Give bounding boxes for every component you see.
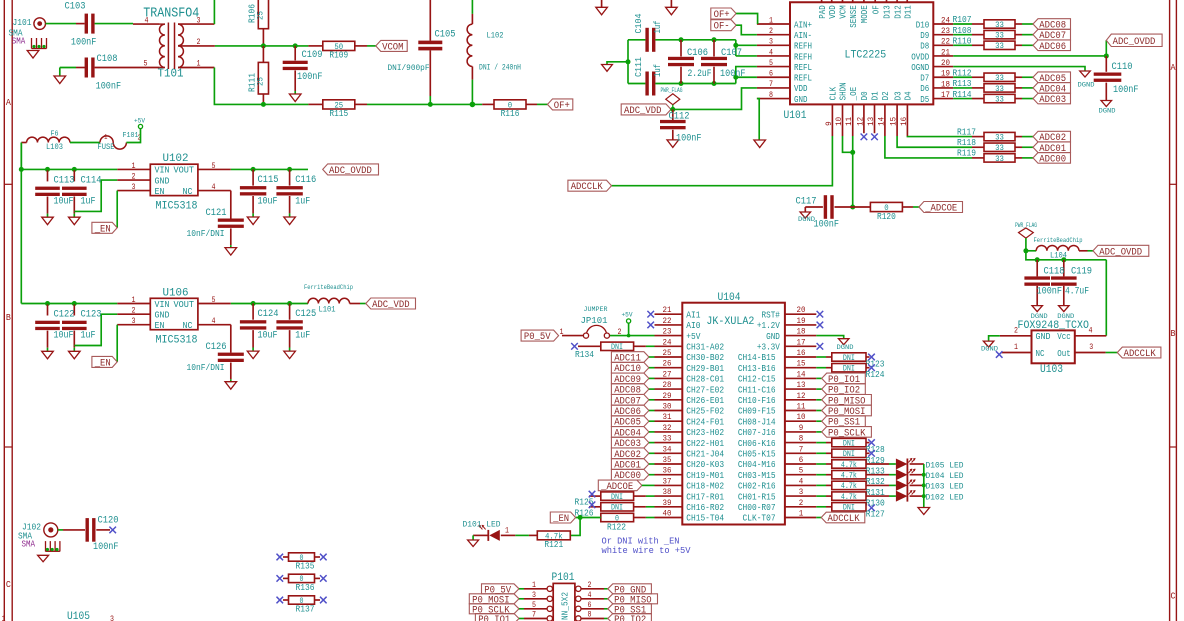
svg-text:33: 33 xyxy=(995,95,1004,104)
svg-text:JUMPER: JUMPER xyxy=(584,306,608,313)
svg-text:R134: R134 xyxy=(575,349,594,360)
svg-text:32: 32 xyxy=(663,423,672,433)
svg-text:CH09-F15: CH09-F15 xyxy=(738,407,776,417)
svg-text:C125: C125 xyxy=(295,309,316,320)
svg-text:11: 11 xyxy=(797,402,806,412)
svg-text:VCM: VCM xyxy=(839,5,849,19)
svg-text:U106: U106 xyxy=(163,287,189,299)
svg-text:L101: L101 xyxy=(319,306,336,315)
svg-text:DGND: DGND xyxy=(1031,313,1048,320)
svg-text:DNI: DNI xyxy=(611,504,623,513)
svg-text:B: B xyxy=(1171,329,1177,339)
svg-text:CH16-R02: CH16-R02 xyxy=(686,503,724,513)
svg-text:U104: U104 xyxy=(718,292,741,304)
svg-text:C110: C110 xyxy=(1112,62,1133,73)
svg-text:100nF: 100nF xyxy=(1037,287,1063,298)
svg-text:C119: C119 xyxy=(1071,266,1092,277)
svg-text:_ADCOE: _ADCOE xyxy=(924,204,957,215)
svg-text:MIC5318: MIC5318 xyxy=(156,200,198,212)
svg-text:DNI: DNI xyxy=(611,493,623,502)
svg-text:D104 LED: D104 LED xyxy=(926,471,964,481)
svg-text:CH02-R16: CH02-R16 xyxy=(738,482,776,492)
svg-text:DGND: DGND xyxy=(1099,108,1116,115)
svg-text:6: 6 xyxy=(799,455,804,465)
svg-text:NC: NC xyxy=(183,321,193,331)
svg-text:D102 LED: D102 LED xyxy=(926,492,964,502)
svg-text:CH01-R15: CH01-R15 xyxy=(738,492,776,502)
svg-text:A: A xyxy=(6,98,12,108)
svg-text:100nF: 100nF xyxy=(93,542,119,553)
svg-text:D105 LED: D105 LED xyxy=(926,460,964,470)
svg-text:R109: R109 xyxy=(329,50,348,61)
svg-text:C123: C123 xyxy=(81,309,102,320)
svg-text:C124: C124 xyxy=(258,309,279,320)
svg-text:R119: R119 xyxy=(957,148,976,159)
svg-text:CH17-R01: CH17-R01 xyxy=(686,492,724,502)
svg-text:_OE: _OE xyxy=(849,87,859,101)
svg-text:OF+: OF+ xyxy=(554,101,570,112)
svg-text:CH25-F02: CH25-F02 xyxy=(686,407,724,417)
svg-text:C104: C104 xyxy=(633,13,644,33)
svg-text:D13: D13 xyxy=(883,5,893,19)
svg-text:22: 22 xyxy=(663,316,672,326)
svg-text:R127: R127 xyxy=(866,508,885,519)
svg-text:D0: D0 xyxy=(860,91,870,100)
svg-text:CH21-J04: CH21-J04 xyxy=(686,450,724,460)
svg-text:+5V: +5V xyxy=(622,312,633,319)
svg-text:R117: R117 xyxy=(957,126,976,137)
svg-text:1: 1 xyxy=(1014,342,1018,352)
svg-text:33: 33 xyxy=(995,32,1004,41)
svg-text:+5V: +5V xyxy=(134,118,145,125)
svg-text:100nF: 100nF xyxy=(1113,85,1139,96)
svg-text:F101: F101 xyxy=(123,132,139,140)
svg-text:R126: R126 xyxy=(575,507,594,518)
svg-text:VIN: VIN xyxy=(155,166,170,176)
svg-text:R122: R122 xyxy=(607,521,626,532)
svg-text:CH29-B01: CH29-B01 xyxy=(686,364,724,374)
svg-text:C107: C107 xyxy=(721,48,742,59)
svg-text:VOUT: VOUT xyxy=(174,166,195,176)
svg-text:AI1: AI1 xyxy=(686,310,700,320)
svg-text:4: 4 xyxy=(212,316,216,326)
svg-text:28: 28 xyxy=(663,380,672,390)
svg-text:P0_IO1: P0_IO1 xyxy=(478,615,510,621)
svg-text:6: 6 xyxy=(588,600,592,610)
svg-text:1uF: 1uF xyxy=(295,331,310,342)
svg-text:REFL: REFL xyxy=(794,74,812,84)
svg-text:C117: C117 xyxy=(796,196,817,207)
svg-text:1: 1 xyxy=(132,295,136,305)
svg-text:R118: R118 xyxy=(957,137,976,148)
svg-text:GND: GND xyxy=(1036,332,1051,342)
svg-text:NC: NC xyxy=(1036,349,1045,359)
svg-text:29: 29 xyxy=(663,391,672,401)
svg-text:12: 12 xyxy=(797,391,806,401)
svg-text:U105: U105 xyxy=(67,611,90,621)
svg-text:B: B xyxy=(6,313,12,323)
svg-text:ADCCLK: ADCCLK xyxy=(1124,349,1156,360)
svg-text:CH04-M16: CH04-M16 xyxy=(738,460,776,470)
svg-text:6: 6 xyxy=(769,69,773,79)
svg-text:3: 3 xyxy=(132,316,136,326)
svg-text:23: 23 xyxy=(941,26,950,36)
svg-text:CH24-F01: CH24-F01 xyxy=(686,417,724,427)
svg-text:2: 2 xyxy=(132,172,136,182)
svg-text:25: 25 xyxy=(257,77,266,86)
svg-text:OF-: OF- xyxy=(714,22,730,33)
svg-text:NC: NC xyxy=(183,187,193,197)
svg-text:21: 21 xyxy=(941,47,950,57)
svg-text:100nF: 100nF xyxy=(720,69,746,80)
svg-text:33: 33 xyxy=(995,155,1004,164)
svg-text:3: 3 xyxy=(799,487,804,497)
svg-text:CH08-J14: CH08-J14 xyxy=(738,417,776,427)
svg-text:DNI: DNI xyxy=(611,343,623,352)
svg-text:1uF: 1uF xyxy=(81,330,96,341)
svg-text:30: 30 xyxy=(663,402,672,412)
svg-text:PWR_FLAG: PWR_FLAG xyxy=(661,87,683,94)
svg-text:ADC06: ADC06 xyxy=(1039,42,1066,53)
svg-text:D103 LED: D103 LED xyxy=(926,482,964,492)
svg-text:100nF: 100nF xyxy=(71,38,97,49)
svg-text:1uf: 1uf xyxy=(652,20,663,33)
svg-text:JP101: JP101 xyxy=(581,315,608,326)
svg-text:Out: Out xyxy=(1057,349,1071,359)
svg-text:R115: R115 xyxy=(329,108,348,119)
svg-text:C: C xyxy=(1171,591,1177,601)
svg-text:22: 22 xyxy=(941,37,950,47)
svg-text:10uF: 10uF xyxy=(258,197,278,208)
svg-text:L102: L102 xyxy=(487,31,504,41)
svg-text:Vcc: Vcc xyxy=(1057,332,1071,342)
svg-text:CH22-H01: CH22-H01 xyxy=(686,439,724,449)
svg-text:38: 38 xyxy=(663,487,672,497)
svg-text:24: 24 xyxy=(941,15,950,25)
svg-text:4.7k: 4.7k xyxy=(841,493,857,502)
svg-text:17: 17 xyxy=(941,90,950,100)
svg-text:U102: U102 xyxy=(163,153,189,165)
svg-text:3: 3 xyxy=(1089,342,1093,352)
svg-text:3: 3 xyxy=(532,590,536,600)
svg-text:FerriteBeadChip: FerriteBeadChip xyxy=(304,284,353,291)
svg-text:TRANSFO4: TRANSFO4 xyxy=(143,7,199,22)
svg-text:1: 1 xyxy=(2,614,6,621)
svg-text:SENSE: SENSE xyxy=(849,5,859,28)
svg-text:C121: C121 xyxy=(206,208,227,219)
svg-text:U103: U103 xyxy=(1040,364,1063,376)
svg-text:3: 3 xyxy=(110,614,114,621)
svg-text:2: 2 xyxy=(132,306,136,316)
svg-text:23: 23 xyxy=(663,327,672,337)
svg-text:1: 1 xyxy=(799,509,804,519)
svg-text:CH13-B16: CH13-B16 xyxy=(738,364,776,374)
svg-text:15: 15 xyxy=(797,359,806,369)
svg-text:D10: D10 xyxy=(916,20,930,30)
svg-text:FerriteBeadChip: FerriteBeadChip xyxy=(1034,237,1083,244)
svg-text:OGND: OGND xyxy=(911,63,929,73)
svg-text:18: 18 xyxy=(941,79,950,89)
svg-text:35: 35 xyxy=(663,455,672,465)
svg-text:1uF: 1uF xyxy=(295,197,310,208)
svg-text:4: 4 xyxy=(769,47,773,57)
svg-text:CLK-T07: CLK-T07 xyxy=(743,514,776,524)
svg-text:R135: R135 xyxy=(296,561,315,572)
svg-text:1: 1 xyxy=(532,580,536,590)
svg-text:R116: R116 xyxy=(501,108,520,119)
svg-text:DNI/900pF: DNI/900pF xyxy=(388,63,430,73)
svg-text:37: 37 xyxy=(663,476,672,486)
svg-text:FOX9248_TCXO: FOX9248_TCXO xyxy=(1018,320,1090,332)
svg-text:P0_5V: P0_5V xyxy=(524,332,551,343)
svg-text:ADCCLK: ADCCLK xyxy=(828,514,860,525)
svg-text:1: 1 xyxy=(769,15,773,25)
svg-text:REFL: REFL xyxy=(794,63,812,73)
svg-text:31: 31 xyxy=(663,412,672,422)
svg-text:18: 18 xyxy=(797,327,806,337)
svg-text:DNI: DNI xyxy=(843,450,855,459)
svg-text:1: 1 xyxy=(505,526,509,536)
svg-text:CH26-E01: CH26-E01 xyxy=(686,396,724,406)
svg-text:D8: D8 xyxy=(920,42,929,52)
svg-text:C122: C122 xyxy=(54,309,75,320)
svg-text:CH05-K15: CH05-K15 xyxy=(738,450,776,460)
svg-text:D2: D2 xyxy=(881,91,891,100)
svg-text:D12: D12 xyxy=(893,5,903,19)
svg-text:CH11-C16: CH11-C16 xyxy=(738,385,776,395)
svg-text:CH19-M01: CH19-M01 xyxy=(686,471,724,481)
svg-text:19: 19 xyxy=(797,316,806,326)
svg-text:SMA: SMA xyxy=(22,540,36,550)
svg-text:ADC_OVDD: ADC_OVDD xyxy=(1099,247,1142,258)
svg-text:4.7k: 4.7k xyxy=(841,461,857,470)
svg-text:2: 2 xyxy=(588,580,592,590)
svg-text:ADC03: ADC03 xyxy=(1039,95,1066,106)
svg-text:16: 16 xyxy=(797,348,806,358)
svg-text:EN: EN xyxy=(155,321,165,331)
svg-text:EN: EN xyxy=(155,187,165,197)
svg-text:10: 10 xyxy=(797,412,806,422)
svg-text:5: 5 xyxy=(532,600,536,610)
svg-text:C116: C116 xyxy=(295,175,316,186)
svg-text:GND: GND xyxy=(155,311,170,321)
svg-text:LTC2225: LTC2225 xyxy=(845,49,887,61)
svg-text:3: 3 xyxy=(769,37,773,47)
svg-text:MIC5318: MIC5318 xyxy=(156,335,198,347)
svg-text:8: 8 xyxy=(588,610,592,620)
svg-text:DNI: DNI xyxy=(843,365,855,374)
svg-text:CH14-B15: CH14-B15 xyxy=(738,353,776,363)
svg-text:C103: C103 xyxy=(65,2,86,13)
svg-text:19: 19 xyxy=(941,69,950,79)
svg-text:R130: R130 xyxy=(866,498,885,509)
svg-text:VOUT: VOUT xyxy=(174,300,195,310)
svg-text:_EN: _EN xyxy=(552,514,569,525)
svg-text:2: 2 xyxy=(1014,326,1018,336)
svg-text:17: 17 xyxy=(797,337,806,347)
svg-text:D11: D11 xyxy=(903,5,913,19)
svg-text:1uF: 1uF xyxy=(81,196,96,207)
svg-text:SMA: SMA xyxy=(12,37,26,47)
svg-text:4: 4 xyxy=(145,16,149,26)
svg-text:21: 21 xyxy=(663,305,672,315)
svg-text:ADC_OVDD: ADC_OVDD xyxy=(329,166,372,177)
svg-text:20: 20 xyxy=(941,58,950,68)
svg-text:3: 3 xyxy=(132,182,136,192)
svg-text:VCOM: VCOM xyxy=(382,42,403,53)
svg-text:CH07-J16: CH07-J16 xyxy=(738,428,776,438)
svg-text:D9: D9 xyxy=(920,31,929,41)
svg-text:C120: C120 xyxy=(98,515,119,526)
svg-text:7: 7 xyxy=(769,79,773,89)
svg-text:25: 25 xyxy=(663,348,672,358)
svg-text:+3.3V: +3.3V xyxy=(757,343,781,353)
svg-text:5: 5 xyxy=(799,466,804,476)
svg-text:4.7k: 4.7k xyxy=(841,482,857,491)
svg-text:36: 36 xyxy=(663,466,672,476)
svg-text:2: 2 xyxy=(769,26,773,36)
svg-text:OVDD: OVDD xyxy=(911,52,929,62)
svg-text:4: 4 xyxy=(799,476,804,486)
svg-text:CH27-E02: CH27-E02 xyxy=(686,385,724,395)
svg-text:26: 26 xyxy=(663,359,672,369)
svg-text:L103: L103 xyxy=(46,143,63,152)
svg-text:+1.2V: +1.2V xyxy=(757,321,781,331)
svg-text:5: 5 xyxy=(144,59,148,69)
svg-text:JK-XULA2: JK-XULA2 xyxy=(706,316,754,328)
svg-text:C108: C108 xyxy=(97,54,118,65)
svg-text:GND: GND xyxy=(794,95,808,105)
svg-text:CH03-M15: CH03-M15 xyxy=(738,471,776,481)
svg-text:F6: F6 xyxy=(51,131,59,139)
svg-text:7: 7 xyxy=(532,610,536,620)
svg-text:DGND: DGND xyxy=(1057,313,1074,320)
svg-text:4: 4 xyxy=(212,182,216,192)
svg-text:10uF: 10uF xyxy=(54,196,74,207)
svg-text:+5V: +5V xyxy=(686,332,701,342)
svg-text:27: 27 xyxy=(663,369,672,379)
svg-text:14: 14 xyxy=(797,369,806,379)
svg-text:33: 33 xyxy=(995,144,1004,153)
svg-text:CH10-F16: CH10-F16 xyxy=(738,396,776,406)
svg-text:R121: R121 xyxy=(544,539,563,550)
svg-text:7: 7 xyxy=(799,444,804,454)
svg-text:R137: R137 xyxy=(296,604,315,615)
svg-text:CH31-A02: CH31-A02 xyxy=(686,343,724,353)
svg-text:4: 4 xyxy=(588,590,592,600)
svg-text:100nF: 100nF xyxy=(297,72,323,83)
svg-text:C114: C114 xyxy=(81,175,102,186)
svg-text:OF: OF xyxy=(871,5,881,14)
svg-text:4.7uF: 4.7uF xyxy=(1065,287,1089,298)
svg-text:C112: C112 xyxy=(669,112,690,123)
svg-text:34: 34 xyxy=(663,444,672,454)
svg-text:8: 8 xyxy=(799,434,804,444)
svg-text:GND: GND xyxy=(766,332,780,342)
svg-text:CH23-H02: CH23-H02 xyxy=(686,428,724,438)
svg-text:33: 33 xyxy=(995,42,1004,51)
svg-text:DNI: DNI xyxy=(843,439,855,448)
svg-text:NN_5X2: NN_5X2 xyxy=(561,592,571,620)
svg-text:40: 40 xyxy=(663,509,672,519)
svg-text:D4: D4 xyxy=(904,91,914,100)
svg-text:R136: R136 xyxy=(296,582,315,593)
svg-text:REFH: REFH xyxy=(794,52,812,62)
svg-text:4.7k: 4.7k xyxy=(841,472,857,481)
svg-text:U101: U101 xyxy=(784,110,807,122)
svg-text:CH06-K16: CH06-K16 xyxy=(738,439,776,449)
svg-text:ADC_OVDD: ADC_OVDD xyxy=(1113,37,1156,48)
svg-text:100nF: 100nF xyxy=(676,134,702,145)
svg-text:9: 9 xyxy=(799,423,804,433)
svg-text:CLK: CLK xyxy=(829,86,839,100)
svg-text:33: 33 xyxy=(995,134,1004,143)
svg-text:10uF: 10uF xyxy=(258,331,278,342)
svg-text:33: 33 xyxy=(995,85,1004,94)
svg-text:ADCCLK: ADCCLK xyxy=(571,182,603,193)
svg-text:5: 5 xyxy=(769,58,773,68)
svg-text:FUSE: FUSE xyxy=(98,143,115,152)
svg-text:D5: D5 xyxy=(920,95,929,105)
svg-text:C118: C118 xyxy=(1044,266,1065,277)
svg-text:R120: R120 xyxy=(877,211,896,222)
svg-text:D6: D6 xyxy=(920,84,929,94)
svg-text:CH15-T04: CH15-T04 xyxy=(686,514,724,524)
svg-text:CH28-C01: CH28-C01 xyxy=(686,375,724,385)
svg-text:C106: C106 xyxy=(687,48,708,59)
svg-text:VDD: VDD xyxy=(828,5,838,19)
svg-text:ADC00: ADC00 xyxy=(1039,154,1066,165)
svg-text:100nF: 100nF xyxy=(96,82,122,93)
svg-text:PAD: PAD xyxy=(818,5,828,19)
svg-text:C126: C126 xyxy=(206,342,227,353)
svg-text:RST#: RST# xyxy=(762,310,780,320)
svg-text:CH20-K03: CH20-K03 xyxy=(686,460,724,470)
svg-text:33: 33 xyxy=(663,434,672,444)
svg-text:CH00-R07: CH00-R07 xyxy=(738,503,776,513)
svg-text:AIN+: AIN+ xyxy=(794,20,812,30)
svg-text:25: 25 xyxy=(257,11,266,20)
svg-text:5: 5 xyxy=(212,295,216,305)
svg-text:5: 5 xyxy=(212,161,216,171)
svg-text:4: 4 xyxy=(1089,326,1093,336)
svg-text:R124: R124 xyxy=(866,369,885,380)
svg-text:T101: T101 xyxy=(158,67,184,81)
svg-text:P101: P101 xyxy=(552,572,575,584)
svg-text:100nF: 100nF xyxy=(814,220,840,231)
svg-text:1: 1 xyxy=(104,134,108,142)
svg-text:DNI: DNI xyxy=(843,354,855,363)
svg-text:_EN: _EN xyxy=(94,224,111,235)
svg-text:D3: D3 xyxy=(893,91,903,100)
svg-text:AI0: AI0 xyxy=(686,321,700,331)
svg-text:1uf: 1uf xyxy=(652,64,663,77)
svg-text:DNI / 240nH: DNI / 240nH xyxy=(479,64,521,73)
svg-text:10uF: 10uF xyxy=(54,330,74,341)
svg-text:1: 1 xyxy=(132,161,136,171)
svg-text:C111: C111 xyxy=(633,57,644,77)
svg-text:AIN-: AIN- xyxy=(794,31,812,41)
svg-text:_EN: _EN xyxy=(94,358,111,369)
svg-text:C109: C109 xyxy=(302,50,323,61)
svg-text:2: 2 xyxy=(618,327,622,337)
svg-text:ADC_VDD: ADC_VDD xyxy=(372,300,409,311)
svg-text:C115: C115 xyxy=(258,175,279,186)
svg-text:CH18-M02: CH18-M02 xyxy=(686,482,724,492)
svg-text:REFH: REFH xyxy=(794,42,812,52)
svg-text:20: 20 xyxy=(797,305,806,315)
svg-text:P0_IO2: P0_IO2 xyxy=(614,615,646,621)
